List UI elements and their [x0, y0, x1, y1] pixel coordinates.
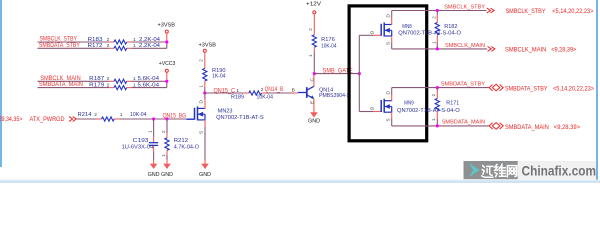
svg-text:R182: R182 [444, 24, 457, 30]
transistor QN14 (NPN) [298, 92, 307, 94]
wire SMBDATA_STBY right [392, 87, 489, 89]
svg-text:1: 1 [133, 43, 136, 49]
wire SMBCLK_STBY right [392, 10, 487, 12]
svg-text:1: 1 [431, 41, 436, 44]
svg-text:+VCC3: +VCC3 [159, 61, 176, 67]
svg-text:MN9: MN9 [404, 101, 413, 107]
svg-text:QN7002-T1B-AT-S: QN7002-T1B-AT-S [216, 115, 264, 121]
wire gate branch vertical [358, 35, 360, 111]
svg-text:1: 1 [120, 112, 123, 118]
svg-text:2: 2 [431, 94, 436, 97]
svg-text:1: 1 [199, 85, 204, 88]
svg-text:5.6K-04: 5.6K-04 [138, 82, 160, 88]
svg-text:R189: R189 [231, 94, 244, 100]
junction dot SMBCLK_STBY [436, 9, 439, 12]
wire R176 to SMB_GATE node [313, 53, 315, 74]
port chevron ATX_PWRGD [69, 117, 76, 122]
wire SMBCLK_MAIN right [392, 48, 488, 50]
svg-text:SMBDATA_MAIN: SMBDATA_MAIN [505, 124, 549, 131]
svg-text:GND: GND [161, 172, 173, 178]
resistor R182 [436, 11, 438, 15]
wire SMBCLK_STBY (left pull-up row) [38, 41, 110, 43]
resistor R171 [436, 88, 438, 91]
svg-text:2: 2 [261, 87, 264, 93]
wire SMBDATA_STBY (left pull-up row) [38, 47, 110, 49]
svg-text:SMBCLK_STBY: SMBCLK_STBY [40, 37, 78, 43]
svg-text:SMBDATA_STBY: SMBDATA_STBY [441, 81, 485, 87]
svg-text:QN7002-T1B-AT-S-04-O: QN7002-T1B-AT-S-04-O [398, 31, 461, 37]
svg-text:2.2K-04: 2.2K-04 [139, 37, 161, 43]
junction dot SMBCLK_MAIN / +VCC3 column [165, 80, 168, 83]
svg-text:B: B [292, 87, 295, 93]
svg-text:2.2K-04: 2.2K-04 [139, 43, 161, 49]
svg-text:S: S [385, 42, 390, 45]
port diamond SMBDATA_STBY [489, 84, 503, 91]
resistor R189 [244, 92, 249, 94]
svg-text:1: 1 [147, 130, 152, 133]
svg-text:R179: R179 [89, 82, 104, 88]
svg-text:R187: R187 [89, 76, 104, 82]
svg-text:<5,14,20,22,23>: <5,14,20,22,23> [552, 8, 594, 15]
watermark badge [464, 161, 597, 179]
ground MN23 [204, 160, 206, 164]
resistor R190 [204, 52, 206, 68]
svg-text:SMBCLK_MAIN: SMBCLK_MAIN [40, 76, 80, 82]
wire to MN9 gate [359, 111, 373, 113]
port diamond SMBDATA_MAIN [489, 123, 503, 130]
ground C193 [153, 160, 155, 164]
svg-text:Chinafix.com: Chinafix.com [522, 164, 597, 179]
wire ATX_PWRGD to R214 [77, 118, 97, 120]
wire SMBDATA_MAIN (left pull-up row) [38, 87, 110, 89]
wire MN23 drain to QN15_C [204, 99, 206, 109]
junction dot SMBCLK_STBY / +3VSB column [165, 40, 168, 43]
wire SMB_GATE [314, 73, 359, 75]
transistor MN8 (MOSFET) [380, 24, 382, 36]
wire MN8 drain to SMBCLK_STBY [391, 18, 393, 26]
svg-text:1: 1 [161, 154, 166, 157]
ground QN14 [313, 108, 315, 112]
resistor R176 [313, 14, 315, 35]
junction dot SMB_GATE right [358, 72, 361, 75]
wire SMBDATA_MAIN right [392, 125, 489, 127]
svg-text:R172: R172 [88, 43, 103, 49]
ground R212 [166, 160, 168, 164]
wire QN14 emitter to ground [313, 99, 315, 109]
svg-text:GND: GND [199, 172, 211, 178]
wire C193 branch [153, 119, 155, 137]
wire MN23 source to ground [204, 120, 206, 127]
resistor R179 [109, 87, 114, 89]
transistor MN9 (MOSFET) [380, 100, 382, 112]
svg-text:<5,14,20,22,23>: <5,14,20,22,23> [553, 85, 594, 92]
svg-text:SMBCLK_MAIN: SMBCLK_MAIN [505, 47, 547, 54]
port chevron SMBCLK_STBY [487, 8, 494, 13]
svg-text:SMBDATA_STBY: SMBDATA_STBY [39, 43, 80, 49]
junction dot QN15_C [203, 91, 206, 94]
svg-text:2: 2 [107, 82, 110, 88]
svg-text:10K-04: 10K-04 [130, 112, 147, 118]
svg-text:S: S [198, 131, 203, 134]
svg-text:S: S [385, 118, 390, 121]
svg-text:G: G [370, 30, 374, 36]
wire QN14 collector to SMB_GATE node [313, 75, 315, 86]
svg-text:2: 2 [308, 28, 313, 31]
svg-text:5.6K-04: 5.6K-04 [138, 76, 160, 82]
svg-text:C193: C193 [133, 138, 149, 144]
svg-text:G: G [370, 106, 374, 112]
resistor R172 [109, 47, 114, 49]
black highlight box [349, 6, 427, 141]
svg-text:2: 2 [107, 43, 110, 49]
svg-text:SMBCLK_MAIN: SMBCLK_MAIN [445, 43, 485, 49]
wire MN8 source to SMBCLK_MAIN [391, 36, 393, 43]
junction dot SMB_GATE left [313, 72, 316, 75]
svg-text:QN7002-T1B-AT-S-04-O: QN7002-T1B-AT-S-04-O [397, 108, 460, 114]
svg-text:10K-04: 10K-04 [257, 94, 274, 100]
svg-text:1: 1 [133, 76, 136, 82]
svg-text:2: 2 [161, 130, 166, 133]
svg-text:2: 2 [199, 59, 204, 62]
svg-text:4.7K-04-O: 4.7K-04-O [174, 144, 200, 150]
svg-text:PMBS3904-S: PMBS3904-S [319, 93, 350, 99]
svg-text:R214: R214 [78, 112, 93, 118]
svg-text:1: 1 [133, 82, 136, 88]
svg-text:+3VSB: +3VSB [199, 43, 217, 49]
svg-text:2: 2 [94, 112, 97, 118]
wire MN9 drain to SMBDATA_STBY [391, 95, 393, 102]
wire R190 to QN15_C node [204, 87, 206, 93]
svg-text:SMBDATA_STBY: SMBDATA_STBY [505, 85, 548, 92]
svg-text:SMBDATA_MAIN: SMBDATA_MAIN [39, 82, 83, 88]
svg-text:R171: R171 [446, 101, 459, 107]
svg-text:ATX_PWRGD: ATX_PWRGD [30, 116, 65, 123]
wire SMBCLK_MAIN (left pull-up row) [38, 80, 110, 82]
capacitor C193 [149, 142, 158, 144]
svg-text:R183: R183 [88, 37, 103, 43]
wire R212 branch [166, 119, 168, 134]
wire R212 to ground [166, 155, 168, 160]
svg-text:1: 1 [431, 118, 436, 121]
svg-text:SMBCLK_STBY: SMBCLK_STBY [444, 4, 485, 10]
wire to MN8 gate [359, 34, 373, 36]
svg-text:2: 2 [107, 37, 110, 43]
svg-text:MN8: MN8 [402, 24, 411, 30]
svg-text:SMBDATA_MAIN: SMBDATA_MAIN [442, 120, 485, 126]
svg-text:<9,28,39>: <9,28,39> [554, 124, 580, 131]
svg-text:<9,28,39>: <9,28,39> [551, 47, 576, 54]
svg-text:29,34,35>: 29,34,35> [0, 116, 23, 123]
wire QN15_BG net [119, 118, 187, 120]
svg-text:10K-04: 10K-04 [321, 44, 337, 50]
wire MN9 source to SMBDATA_MAIN [391, 112, 393, 118]
junction dot R212 tap [165, 117, 168, 120]
port chevron SMBCLK_MAIN [488, 47, 495, 52]
svg-text:1: 1 [236, 88, 239, 94]
svg-text:1: 1 [133, 37, 136, 43]
svg-text:QN14_B: QN14_B [265, 87, 284, 93]
svg-text:+12V: +12V [306, 2, 321, 8]
svg-text:GND: GND [148, 172, 160, 178]
svg-text:MN23: MN23 [218, 108, 233, 114]
svg-text:R212: R212 [174, 138, 188, 144]
resistor R183 [109, 41, 114, 43]
svg-text:2: 2 [107, 76, 110, 82]
junction dot SMBDATA_STBY [436, 86, 439, 89]
svg-text:1: 1 [308, 54, 313, 57]
junction dot C193 tap [152, 117, 155, 120]
transistor MN23 (MOSFET) [187, 118, 195, 120]
svg-text:SMBCLK_STBY: SMBCLK_STBY [506, 8, 547, 15]
svg-text:1K-04: 1K-04 [212, 73, 226, 79]
resistor R212 [165, 138, 169, 151]
wire C193 to ground [153, 146, 155, 152]
svg-text:+3VSB: +3VSB [158, 23, 176, 29]
junction dot SMBDATA_MAIN [436, 124, 439, 127]
svg-text:R176: R176 [321, 37, 335, 43]
resistor R187 [109, 80, 114, 82]
junction dot SMBCLK_MAIN [436, 47, 439, 50]
wire QN14_B to QN14 base [267, 92, 292, 94]
svg-text:2: 2 [431, 16, 436, 19]
svg-text:1U-6V3X-04: 1U-6V3X-04 [122, 144, 154, 150]
resistor R214 [97, 118, 102, 120]
wire QN15_C to R189 [205, 92, 244, 94]
svg-text:GND: GND [308, 119, 320, 125]
